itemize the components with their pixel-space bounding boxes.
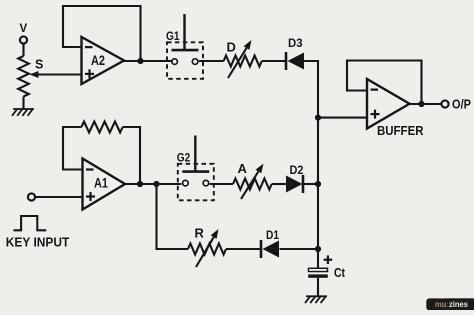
svg-text:D: D	[227, 40, 236, 55]
switch G1 (analog gate)	[166, 14, 203, 79]
wire Ct to ground	[317, 278, 319, 297]
svg-text:V: V	[20, 23, 28, 35]
svg-text:A2: A2	[91, 53, 105, 68]
svg-text:G2: G2	[177, 152, 191, 164]
wire D2 to bus	[304, 183, 318, 185]
wire A1 feedback loop right segment	[123, 127, 140, 184]
svg-text:A: A	[238, 161, 248, 176]
ground (below S)	[12, 109, 34, 116]
variable resistor A (attack)	[233, 161, 272, 199]
resistor A1 feedback	[81, 122, 122, 133]
wire G2 to variable resistor A	[210, 183, 233, 185]
svg-text:mu:zines: mu:zines	[435, 300, 468, 309]
node KEY INPUT terminal	[28, 193, 35, 200]
node V (supply terminal)	[20, 23, 28, 44]
svg-text:D3: D3	[288, 36, 303, 50]
capacitor Ct (polarized)	[308, 255, 345, 280]
wire A1 output	[125, 183, 181, 185]
svg-text:R: R	[195, 226, 205, 241]
variable resistor D (decay)	[224, 40, 262, 79]
wire A1 branch down to R	[157, 184, 189, 249]
wiper arrow of S / wire to A2 + input	[30, 71, 83, 78]
wire V terminal to potentiometer S	[22, 44, 24, 56]
wire D1 to bus junction	[280, 248, 319, 250]
diode D1	[261, 228, 279, 258]
variable resistor R (release)	[188, 226, 226, 268]
svg-text:A1: A1	[94, 176, 108, 191]
svg-text:S: S	[35, 58, 43, 72]
wire buffer output	[410, 103, 442, 105]
svg-text:D2: D2	[290, 163, 304, 177]
svg-text:BUFFER: BUFFER	[377, 124, 424, 138]
junction A1 output / feedback	[137, 181, 143, 187]
wire D3 to summing bus (vertical bus)	[304, 61, 318, 249]
svg-text:O/P: O/P	[452, 98, 471, 112]
switch G2 (analog gate)	[177, 136, 214, 201]
junction A1 output / branch to R	[153, 181, 159, 187]
wire D to diode D3	[262, 60, 285, 62]
svg-text:Ct: Ct	[334, 265, 346, 280]
potentiometer S	[18, 56, 43, 97]
label KEY INPUT	[6, 236, 70, 250]
wire A2 feedback loop (output to inverting input)	[63, 6, 141, 61]
junction D2 / bus	[315, 181, 321, 187]
wire bus junction to Ct	[317, 249, 319, 269]
wire bus to buffer + input	[318, 117, 367, 119]
wire G1 to variable resistor D	[199, 60, 224, 62]
wire S to ground	[22, 97, 24, 110]
junction D1 / Ct / bus	[315, 246, 321, 252]
diode D2	[286, 163, 304, 193]
svg-text:G1: G1	[166, 31, 180, 43]
wire KEY INPUT to A1 + input	[35, 196, 82, 198]
junction buffer output / feedback	[418, 101, 424, 107]
svg-text:D1: D1	[266, 228, 279, 242]
node O/P (output terminal)	[441, 98, 471, 112]
op-amp A2	[82, 37, 125, 84]
wire R to diode D1	[226, 248, 260, 250]
wire A2 output	[124, 60, 173, 62]
key input pulse symbol	[13, 216, 46, 230]
diode D3	[286, 36, 304, 70]
svg-text:KEY INPUT: KEY INPUT	[6, 236, 70, 250]
wire buffer feedback loop	[347, 61, 422, 105]
junction bus to buffer input	[315, 115, 321, 121]
ground (below Ct)	[305, 296, 327, 303]
wire A to diode D2	[272, 183, 286, 185]
op-amp U1 BUFFER	[367, 79, 424, 138]
wire A1 feedback loop left segment	[63, 127, 83, 170]
junction A2 output / feedback	[137, 58, 143, 64]
op-amp A1	[83, 159, 126, 210]
